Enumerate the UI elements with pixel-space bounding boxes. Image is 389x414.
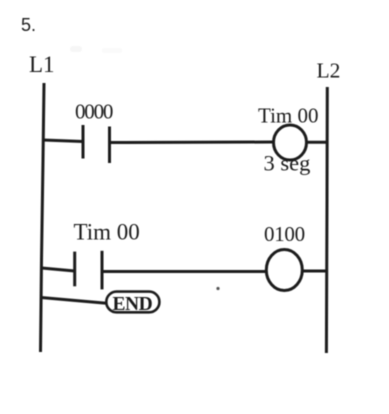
svg-text:0100: 0100 (264, 222, 305, 246)
svg-text:0000: 0000 (75, 100, 113, 124)
svg-text:L1: L1 (29, 52, 55, 77)
svg-text:5.: 5. (21, 15, 36, 35)
svg-text:3 seg: 3 seg (264, 151, 311, 176)
svg-text:Tim 00: Tim 00 (258, 104, 319, 128)
svg-text:L2: L2 (317, 58, 341, 82)
svg-text:Tim 00: Tim 00 (74, 220, 140, 245)
svg-text:END: END (113, 294, 153, 315)
